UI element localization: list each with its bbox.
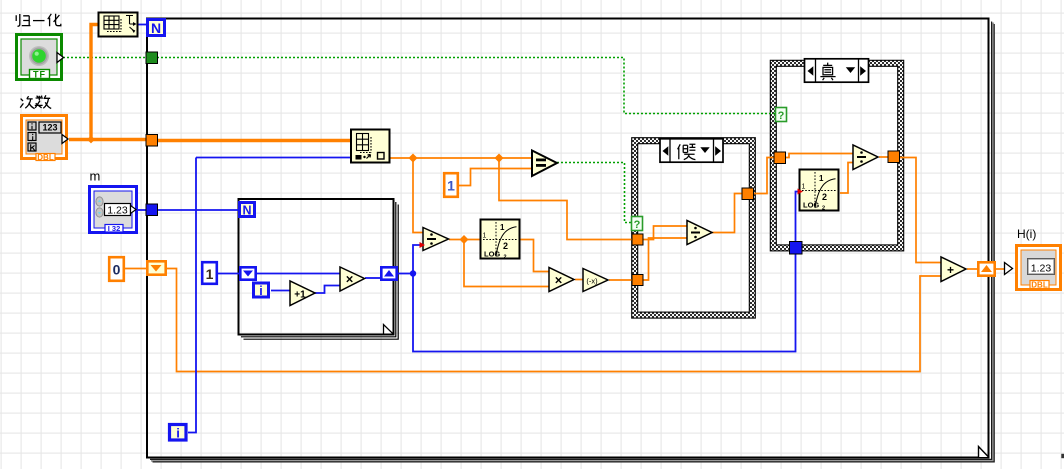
svg-text:m: m [90,169,101,184]
svg-text:2: 2 [822,192,827,202]
svg-text:1: 1 [819,174,824,183]
svg-text:1: 1 [447,178,455,194]
svg-text:2: 2 [822,206,825,212]
svg-text:?: ? [778,110,785,122]
svg-text:i: i [259,284,262,298]
svg-text:+: + [947,263,954,277]
svg-text:1: 1 [802,184,806,191]
svg-text:(-x): (-x) [586,277,598,286]
svg-text:H(i): H(i) [1017,227,1036,241]
svg-text:1.23: 1.23 [1031,263,1052,275]
svg-text:×: × [555,273,563,288]
svg-text:LOG: LOG [803,201,819,210]
svg-text:I 32: I 32 [108,224,121,233]
svg-text:1: 1 [206,266,214,282]
svg-text:1.23: 1.23 [107,205,128,217]
svg-text:LOG: LOG [484,250,500,259]
svg-text:1: 1 [483,233,487,240]
svg-text:2: 2 [503,241,508,251]
svg-text:N: N [151,20,161,36]
svg-text:DBL: DBL [1031,281,1048,290]
svg-text:0: 0 [113,262,121,278]
svg-text:TF: TF [33,70,46,80]
svg-text:2: 2 [504,255,507,261]
svg-text:DBL: DBL [37,153,54,162]
svg-text:?: ? [634,219,641,231]
svg-text:+1: +1 [294,290,306,301]
svg-text:1: 1 [500,223,505,232]
svg-text:×: × [346,272,354,287]
svg-text:i: i [176,426,180,441]
svg-text:N: N [242,204,251,218]
svg-text:123: 123 [42,123,57,133]
